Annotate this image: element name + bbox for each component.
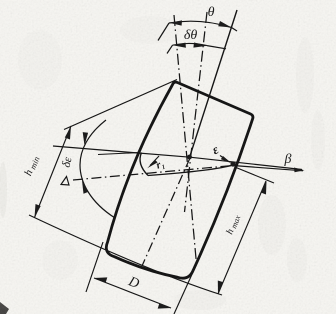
wire: line U (upper beam axis through P1, P2, to right arrow) [53,146,302,170]
wire: fan line L3 solid (theta line) [189,10,237,159]
triangle Delta mark at V left end [61,177,69,186]
D extension left [86,242,103,292]
wire: line V dash-dot (lower beam axis rising to P2) [73,166,233,181]
delta-theta dimension arc [173,43,208,45]
arrow: h_max bottom [218,281,223,295]
h_max dimension line [218,181,266,294]
wire: delta-theta tail to right [207,46,226,49]
arrow: h_max top [261,181,267,195]
wire: theta arc right tail [232,28,238,32]
wire: line V continuation converging to beam arrow [233,166,303,171]
arrow: delta-eps top (on arc above U, points down) [83,132,88,145]
D extension right [174,250,203,314]
svg-text:β: β [284,152,292,167]
delta-epsilon big arc on left [80,120,115,218]
arrow: theta arc left (tip on L1) [169,20,182,25]
h_min dimension line [35,126,72,218]
wire: long baseline (h_min bottom ext continuing under rod) [29,215,222,295]
beam capsule left arc (on rod left face) [140,153,148,176]
beam capsule bottom line to P2 [148,165,233,176]
arrow: delta-eps bottom (on arc below V, points up) [82,181,89,194]
leader arrow for r1 to capsule arc [150,156,159,166]
h_min extension top (through TL corner) [64,80,177,130]
wire: theta arc left tail [158,23,169,41]
arrow: delta-theta left (tip on L1) [173,43,186,48]
h_max extension top (from beam axis down-right) [236,168,274,184]
arrow: delta-theta right (tip near L2) [193,43,207,48]
wire: delta-theta left tail [167,45,173,53]
D dimension line [94,278,171,308]
arrow: h_min top [65,126,71,140]
rod body (rounded quadrilateral, tilted) [106,82,253,278]
wire: short line merging into U left of capsule [98,153,140,155]
svg-text:θ: θ [208,5,215,20]
arrow: D left [94,277,107,283]
arrow: D right [158,303,171,309]
scan smudge bottom-left corner [0,302,9,314]
wire: rod axis dash-dot (down-left from node P1) [142,158,190,266]
wire: fan line L1 dash-dot (leftmost, near vertical) [174,15,197,264]
arrow: theta arc right (tip on L3) [218,21,231,28]
arrow: h_min bottom [35,204,41,218]
svg-text:δθ: δθ [184,28,198,43]
arrow: right end of beam axis B [294,168,305,173]
wire: fan line L2 dash-dot (middle) [185,12,208,212]
junction blob P2 [230,161,235,166]
theta dimension arc [169,21,232,27]
leader arrow for eps to P2 [220,156,228,162]
junction blob P1 [187,155,192,160]
